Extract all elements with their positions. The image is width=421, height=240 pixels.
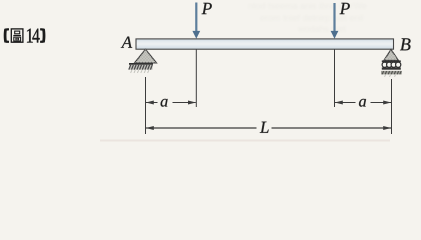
- svg-text:wodahs txet: wodahs txet: [297, 24, 347, 34]
- svg-text:erom tnief detnirp txet enil: erom tnief detnirp txet enil: [260, 13, 364, 23]
